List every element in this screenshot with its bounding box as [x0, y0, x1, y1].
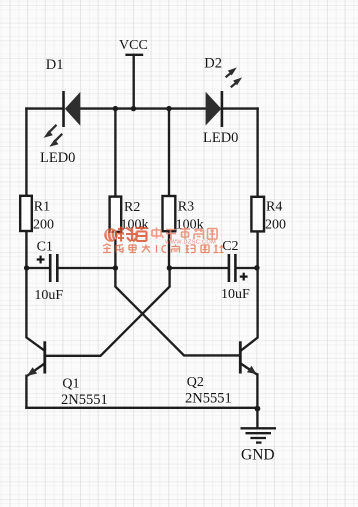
junction node VCC/rail — [131, 106, 136, 111]
svg-text:2N5551: 2N5551 — [185, 390, 232, 406]
wire R2 bottom to C1 line — [114, 232, 116, 268]
wire C1 right lead — [58, 267, 115, 269]
resistor R4 — [251, 197, 264, 232]
watermark title 维库 — [118, 226, 148, 242]
svg-text:VCC: VCC — [119, 38, 148, 53]
wire R3 bottom to C2 line — [168, 231, 170, 268]
svg-text:D2: D2 — [204, 55, 222, 71]
svg-text:2N5551: 2N5551 — [61, 392, 108, 408]
svg-text:R4: R4 — [266, 200, 282, 215]
wire R2 top — [114, 109, 116, 197]
svg-text:100k: 100k — [121, 218, 149, 233]
wire Q2 emitter to bottom rail — [256, 374, 258, 407]
junction node C2 right — [254, 265, 259, 270]
transistor Q1 — [27, 341, 45, 376]
svg-text:C2: C2 — [222, 239, 238, 254]
wire left vertical: C1 node to Q1 collector — [26, 268, 44, 351]
svg-text:200: 200 — [265, 218, 286, 233]
wire C1 left lead — [26, 267, 49, 269]
ground — [241, 428, 277, 442]
watermark logo — [104, 228, 118, 242]
junction node R3/rail — [166, 106, 171, 111]
watermark title 电子市场网 — [152, 227, 217, 240]
wire top rail middle segment (VCC net) — [80, 107, 205, 109]
wire C2 right lead — [236, 267, 257, 269]
svg-text:D1: D1 — [46, 57, 64, 73]
junction node C1 right / R2 bottom — [113, 265, 118, 270]
svg-text:LED0: LED0 — [203, 130, 238, 146]
svg-text:GND: GND — [241, 447, 275, 464]
wire VCC stub — [133, 55, 135, 109]
wire Q1 emitter to bottom rail — [25, 376, 27, 408]
svg-text:R3: R3 — [178, 200, 194, 215]
wire top rail left segment — [26, 107, 63, 109]
junction node R2/rail — [113, 106, 118, 111]
resistor R3 — [163, 196, 176, 231]
plus sign C1 — [37, 256, 45, 264]
LED D1 — [44, 91, 81, 147]
power VCC — [125, 54, 143, 56]
svg-text:10uF: 10uF — [221, 287, 250, 302]
LED D2 — [206, 68, 243, 128]
wire ground stub — [256, 408, 258, 427]
transistor Q2 — [240, 341, 257, 374]
junction node C2 left / R3 bottom — [167, 265, 172, 270]
resistor R2 — [110, 197, 122, 232]
plus sign C2 — [240, 273, 248, 281]
svg-text:R1: R1 — [34, 200, 50, 215]
svg-text:Q1: Q1 — [62, 377, 79, 392]
svg-text:LED0: LED0 — [40, 150, 75, 166]
watermark subtitle 全球最大IC采购网站 — [103, 244, 224, 253]
svg-text:C1: C1 — [37, 239, 53, 254]
wire left vertical: R1 to C1 node — [25, 231, 27, 268]
wire bottom rail — [26, 407, 257, 409]
wire R3 top — [168, 109, 170, 197]
wire right vertical: rail to R4 — [256, 109, 258, 197]
wire C2 left lead — [169, 267, 228, 269]
svg-text:R2: R2 — [124, 200, 140, 215]
wire right vertical: R4 to C2 node — [256, 231, 258, 268]
wire right vertical: C2 node to Q2 collector — [241, 268, 258, 351]
capacitor C1 — [50, 254, 57, 282]
junction node C1 left — [24, 265, 29, 270]
svg-text:200: 200 — [33, 218, 54, 233]
svg-text:10uF: 10uF — [34, 288, 63, 303]
wire cross-coupling R2 node to Q2 base — [115, 268, 239, 355]
wire cross-coupling R3 node to Q1 base — [46, 268, 170, 356]
svg-text:Q2: Q2 — [187, 375, 204, 390]
capacitor C2 — [229, 254, 236, 282]
wire top rail right segment — [222, 107, 258, 109]
wire left vertical: rail to R1 — [25, 109, 27, 197]
resistor R1 — [20, 196, 32, 231]
junction node ground — [255, 406, 261, 412]
